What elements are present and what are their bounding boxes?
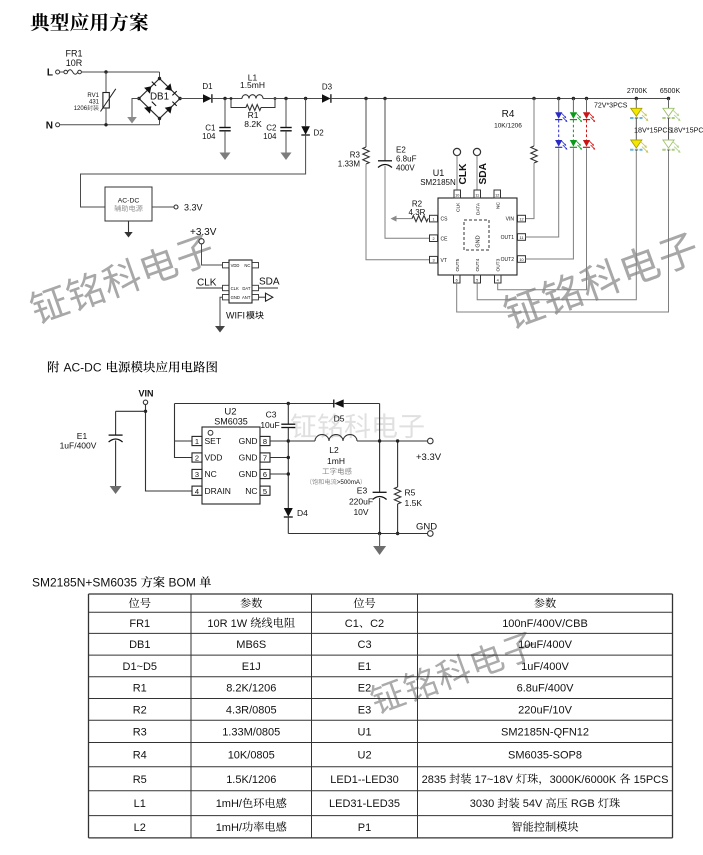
svg-text:SM6035: SM6035 <box>214 417 248 427</box>
LED string blue (LED31..) <box>555 97 567 150</box>
svg-text:1.33M: 1.33M <box>338 160 361 169</box>
diode D5 <box>334 399 345 423</box>
svg-text:10R 1W: 10R 1W <box>207 618 247 630</box>
svg-text:NC: NC <box>205 469 217 479</box>
svg-text:R4: R4 <box>133 750 147 762</box>
svg-text:1uF/400V: 1uF/400V <box>60 441 97 451</box>
svg-text:GND: GND <box>239 453 258 463</box>
svg-text:E1J: E1J <box>242 661 261 673</box>
wire N to bridge <box>60 119 160 127</box>
svg-text:2700K: 2700K <box>627 88 648 95</box>
LED string 2700K yellow <box>630 97 648 153</box>
LED string green <box>570 97 582 150</box>
svg-text:AC-DC: AC-DC <box>118 197 140 204</box>
svg-text:1: 1 <box>195 437 199 446</box>
svg-text:10R: 10R <box>66 58 83 68</box>
svg-text:R4: R4 <box>502 109 515 120</box>
svg-text:N: N <box>46 121 53 132</box>
svg-text:SDA: SDA <box>259 277 280 288</box>
svg-text:4.3R: 4.3R <box>409 208 426 217</box>
svg-text:D1~D5: D1~D5 <box>123 661 158 673</box>
svg-text:7: 7 <box>263 454 267 463</box>
wire VIN down to DRAIN <box>146 405 193 492</box>
svg-text:1mH: 1mH <box>327 456 345 466</box>
wire OUT5 to 6500K LED string <box>457 151 669 312</box>
svg-text:CLK: CLK <box>455 202 461 212</box>
capacitor E2 <box>378 97 417 173</box>
WIFI module U3 body <box>223 260 259 303</box>
table title SM2185N+SM6035 BOM <box>32 576 211 590</box>
table row L1 <box>134 798 620 811</box>
diode D2 <box>301 97 324 138</box>
svg-text:R3: R3 <box>350 151 361 160</box>
svg-text:12: 12 <box>519 218 523 222</box>
svg-text:220uF/10V: 220uF/10V <box>518 704 572 716</box>
svg-text:100nF/400V/CBB: 100nF/400V/CBB <box>502 618 588 630</box>
AC-DC auxiliary power module <box>105 187 152 221</box>
svg-text:OUT4: OUT4 <box>475 258 481 271</box>
svg-text:104: 104 <box>263 132 277 141</box>
svg-text:NC: NC <box>245 486 257 496</box>
svg-text:GND: GND <box>475 235 481 247</box>
ground C2 <box>281 153 292 161</box>
svg-text:1: 1 <box>432 218 434 222</box>
svg-text:6500K: 6500K <box>660 88 681 95</box>
svg-text:DAT: DAT <box>242 286 251 291</box>
section title AC-DC module circuit <box>48 361 217 375</box>
ground E1 <box>110 486 122 494</box>
svg-text:U1: U1 <box>358 726 372 738</box>
svg-text:GND: GND <box>416 522 437 533</box>
chip U2 SM6035 body <box>192 407 270 505</box>
svg-text:RV1: RV1 <box>87 93 99 99</box>
svg-text:C2: C2 <box>370 618 384 630</box>
svg-text:1.5K: 1.5K <box>405 498 423 508</box>
svg-text:SDA: SDA <box>478 162 489 184</box>
svg-text:3: 3 <box>195 470 199 479</box>
svg-text:10: 10 <box>455 193 459 197</box>
op-amp U1 SM2185N body <box>420 168 525 283</box>
svg-text:220uF: 220uF <box>349 497 373 507</box>
node output column junctions <box>378 404 381 493</box>
svg-text:400V: 400V <box>396 164 415 173</box>
svg-text:17~18V: 17~18V <box>475 774 514 786</box>
svg-text:DB1: DB1 <box>129 639 150 651</box>
capacitor E1 <box>60 410 148 486</box>
fuse FR1 <box>60 49 83 75</box>
svg-text:R1: R1 <box>133 683 147 695</box>
svg-text:1.5K/1206: 1.5K/1206 <box>226 774 276 786</box>
terminal GND <box>416 522 437 537</box>
svg-text:D2: D2 <box>314 129 325 138</box>
svg-text:E2: E2 <box>396 146 406 155</box>
svg-text:OUT2: OUT2 <box>501 257 515 263</box>
svg-text:1.33M/0805: 1.33M/0805 <box>222 726 280 738</box>
svg-text:NC: NC <box>495 202 501 209</box>
page title 典型应用方案 <box>31 13 149 32</box>
svg-text:D5: D5 <box>334 414 345 424</box>
inductor L1 <box>240 73 265 99</box>
capacitor C2 <box>263 97 292 153</box>
svg-text:18V*15PCS: 18V*15PCS <box>634 126 673 135</box>
svg-text:WIFI: WIFI <box>226 311 245 321</box>
svg-text:GND: GND <box>239 436 258 446</box>
label WIFI module <box>226 311 264 321</box>
svg-text:11: 11 <box>520 236 524 240</box>
svg-text:AC-DC: AC-DC <box>64 361 102 375</box>
node L input terminal <box>47 68 60 79</box>
wire rail to output column <box>344 403 380 405</box>
svg-text:E3: E3 <box>358 704 371 716</box>
svg-text:C1: C1 <box>345 618 359 630</box>
svg-text:5: 5 <box>476 278 478 282</box>
wire GND pins to C3 column <box>270 439 290 475</box>
svg-text:104: 104 <box>202 132 216 141</box>
svg-text:L: L <box>47 68 53 79</box>
svg-text:ANT: ANT <box>242 295 251 300</box>
svg-text:6.8uF: 6.8uF <box>396 155 417 164</box>
capacitor E3 <box>349 486 387 534</box>
resistor R1 (parallel with L1) <box>231 99 275 130</box>
svg-text:GND: GND <box>231 295 240 300</box>
svg-text:4: 4 <box>497 278 499 282</box>
wire top rail schematic2 <box>175 403 334 405</box>
svg-text:VT: VT <box>441 258 447 264</box>
table row D1-D5 <box>123 661 570 673</box>
LED string 6500K <box>662 97 680 153</box>
svg-text:10K/1206: 10K/1206 <box>494 123 522 130</box>
svg-text:8: 8 <box>263 437 267 446</box>
capacitor C1 <box>202 97 231 153</box>
watermark middle horizontal <box>291 413 424 438</box>
resistor R2 <box>391 200 430 222</box>
svg-text:10uF: 10uF <box>260 420 279 430</box>
table row R3 <box>133 726 589 738</box>
table row R1 <box>133 683 574 695</box>
ground at bridge negative <box>127 99 139 124</box>
svg-text:VIN: VIN <box>506 217 515 223</box>
wire R3 to VT <box>366 164 430 260</box>
svg-text:4.3R/0805: 4.3R/0805 <box>226 704 277 716</box>
node N input terminal <box>46 121 60 132</box>
svg-text:11: 11 <box>475 193 479 197</box>
svg-text:15PCS: 15PCS <box>634 774 669 786</box>
svg-text:LED31-LED35: LED31-LED35 <box>329 798 400 810</box>
svg-text:1mH/: 1mH/ <box>216 822 243 834</box>
LED string red <box>583 97 595 150</box>
svg-text:D4: D4 <box>297 508 308 518</box>
svg-text:U1: U1 <box>433 168 445 178</box>
diode D1 <box>202 82 213 103</box>
svg-text:GND: GND <box>239 469 258 479</box>
svg-text:R5: R5 <box>405 488 416 498</box>
ground AC-DC <box>124 221 132 238</box>
svg-text:CLK: CLK <box>231 286 239 291</box>
svg-text:E1: E1 <box>358 661 371 673</box>
svg-text:SM2185N+SM6035: SM2185N+SM6035 <box>32 576 137 590</box>
svg-text:12: 12 <box>495 193 499 197</box>
wire OUT4 to 2700K LED string <box>477 151 636 300</box>
svg-text:431: 431 <box>89 100 100 106</box>
svg-text:U2: U2 <box>358 750 372 762</box>
svg-text:R5: R5 <box>133 774 147 786</box>
svg-text:1mH/: 1mH/ <box>216 798 243 810</box>
svg-text:8.2K/1206: 8.2K/1206 <box>226 683 276 695</box>
wire L to bridge <box>81 72 159 79</box>
svg-text:10V: 10V <box>353 507 368 517</box>
resistor R3 <box>338 97 369 169</box>
table row R5 <box>133 773 669 785</box>
svg-text:P1: P1 <box>358 822 371 834</box>
svg-text:LED1--LED30: LED1--LED30 <box>330 774 398 786</box>
svg-text:6.8uF/400V: 6.8uF/400V <box>517 683 575 695</box>
terminal CLK <box>453 148 468 190</box>
wire SET/VDD riser <box>175 404 193 458</box>
terminal 3.3V output <box>152 203 203 213</box>
inductor L2 <box>288 435 427 466</box>
svg-text:L2: L2 <box>134 822 146 834</box>
svg-text:72V*3PCS: 72V*3PCS <box>594 103 628 110</box>
terminal +3.3V WIFI supply <box>190 227 223 265</box>
table row L2 <box>134 821 579 834</box>
svg-text:18V*15PCS: 18V*15PCS <box>670 126 703 135</box>
svg-text:E2: E2 <box>358 683 371 695</box>
svg-text:C3: C3 <box>358 639 372 651</box>
svg-text:E1: E1 <box>77 431 88 441</box>
wire OUT2 to green LED string <box>526 148 574 259</box>
svg-text:D1: D1 <box>202 82 213 91</box>
wire OUT3 to red LED string <box>498 148 587 289</box>
svg-text:DB1: DB1 <box>150 91 169 102</box>
resistor R4 <box>494 97 537 163</box>
svg-text:+3.3V: +3.3V <box>190 227 217 238</box>
svg-text:54V: 54V <box>523 798 543 810</box>
wire main rail <box>180 98 203 100</box>
svg-text:CE: CE <box>441 236 449 242</box>
svg-text:VDD: VDD <box>205 453 223 463</box>
node junction RV1 top <box>104 70 107 73</box>
svg-text:10uF/400V: 10uF/400V <box>518 639 572 651</box>
watermark left <box>27 230 217 326</box>
svg-text:10K/0805: 10K/0805 <box>228 750 275 762</box>
svg-text:DRAIN: DRAIN <box>205 486 231 496</box>
svg-text:DATA: DATA <box>475 202 481 215</box>
svg-text:FR1: FR1 <box>65 49 82 59</box>
svg-text:3000K/6000K: 3000K/6000K <box>550 774 617 786</box>
svg-text:R2: R2 <box>133 704 147 716</box>
svg-text:5: 5 <box>263 487 267 496</box>
svg-text:D3: D3 <box>322 83 333 92</box>
svg-text:6: 6 <box>263 470 267 479</box>
svg-text:CLK: CLK <box>197 278 217 289</box>
wire E2 to CE <box>385 166 430 238</box>
svg-text:3.3V: 3.3V <box>184 203 203 213</box>
svg-text:2: 2 <box>432 237 434 241</box>
svg-text:VIN: VIN <box>138 389 153 399</box>
resistor R5 <box>394 439 422 535</box>
svg-text:4: 4 <box>195 487 199 496</box>
table grid <box>89 594 673 838</box>
svg-text:SM6035-SOP8: SM6035-SOP8 <box>508 750 582 762</box>
svg-text:CLK: CLK <box>458 163 469 185</box>
svg-text:10: 10 <box>519 258 523 262</box>
varistor RV1 <box>87 72 115 125</box>
svg-text:E3: E3 <box>357 486 368 496</box>
svg-text:6: 6 <box>456 278 458 282</box>
svg-text:3030: 3030 <box>470 798 494 810</box>
watermark table <box>367 628 539 716</box>
wire rail D3 to end <box>331 98 669 100</box>
svg-text:RGB: RGB <box>571 798 595 810</box>
table row R4 <box>133 750 582 762</box>
svg-text:SM2185N: SM2185N <box>420 178 456 187</box>
svg-text:3: 3 <box>432 259 434 263</box>
node CLK stub <box>196 278 223 289</box>
svg-text:2835: 2835 <box>422 774 446 786</box>
svg-text:VDD: VDD <box>231 263 240 268</box>
svg-text:CS: CS <box>441 217 449 223</box>
svg-text:2: 2 <box>195 454 199 463</box>
table row R2 <box>133 704 573 716</box>
svg-text:OUT5: OUT5 <box>455 258 461 271</box>
capacitor C3 <box>260 402 295 508</box>
svg-text:+3.3V: +3.3V <box>416 452 442 463</box>
bridge rectifier DB1 <box>137 77 181 120</box>
terminal SDA <box>473 148 488 190</box>
svg-text:FR1: FR1 <box>129 618 150 630</box>
antenna ANT <box>259 293 273 301</box>
svg-text:SM2185N-QFN12: SM2185N-QFN12 <box>501 726 589 738</box>
wire OUT1 to blue LED string <box>526 148 559 237</box>
ground C1 <box>220 153 231 161</box>
svg-text:1uF/400V: 1uF/400V <box>521 661 569 673</box>
terminal VIN <box>138 389 153 405</box>
terminal +3.3V output <box>416 438 442 463</box>
svg-text:L2: L2 <box>329 445 339 455</box>
svg-text:C3: C3 <box>266 410 277 420</box>
watermark right <box>500 228 701 331</box>
svg-text:1206: 1206 <box>74 106 88 112</box>
wire R4 to VIN <box>526 163 535 219</box>
table row FR1 <box>129 617 587 629</box>
svg-text:MB6S: MB6S <box>236 639 266 651</box>
ground E3 <box>373 534 386 556</box>
svg-text:NC: NC <box>244 263 250 268</box>
diode D3 <box>322 83 333 103</box>
wire rail D1 to L1 <box>212 98 242 100</box>
svg-text:L1: L1 <box>134 798 146 810</box>
node SDA stub <box>259 277 280 288</box>
svg-text:SET: SET <box>205 436 222 446</box>
wire bottom rail <box>288 532 427 535</box>
svg-text:BOM: BOM <box>169 576 196 590</box>
wire rail L1 to D3 <box>263 98 322 100</box>
table row header <box>129 598 556 608</box>
svg-text:OUT3: OUT3 <box>496 258 502 271</box>
svg-text:1.5mH: 1.5mH <box>240 80 265 90</box>
wire D2 branch to AC-DC <box>81 135 306 207</box>
ground WIFI <box>215 297 225 332</box>
svg-text:OUT1: OUT1 <box>501 235 515 241</box>
diode D4 <box>284 508 308 534</box>
svg-text:R3: R3 <box>133 726 147 738</box>
table row DB1 <box>129 639 572 651</box>
U1 internal GND pad <box>464 220 489 250</box>
svg-text:8.2K: 8.2K <box>244 119 262 129</box>
